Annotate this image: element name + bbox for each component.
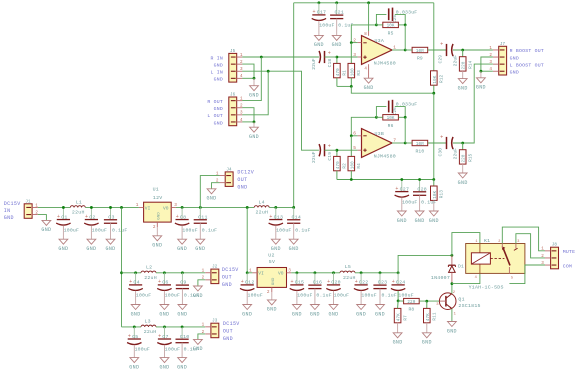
pin 1 U3A output <box>392 49 404 51</box>
svg-text:J3: J3 <box>212 320 218 324</box>
connector J2 <box>211 269 219 284</box>
svg-text:COM: COM <box>563 263 572 269</box>
svg-text:100uF: 100uF <box>276 227 291 233</box>
regulator U1 12V <box>144 202 172 222</box>
svg-text:R5: R5 <box>388 31 394 37</box>
capacitor C2 <box>90 207 92 218</box>
capacitor C20 <box>333 273 335 284</box>
svg-text:R1: R1 <box>343 70 348 76</box>
ground C10 <box>181 343 183 358</box>
ground C2 <box>90 225 92 239</box>
capacitor C15 <box>296 273 298 284</box>
wire C26 branch left <box>376 107 386 118</box>
svg-text:J4: J4 <box>226 168 232 172</box>
capacitor C26 0.033uF <box>388 101 390 113</box>
svg-text:GND: GND <box>314 42 324 48</box>
svg-text:GND: GND <box>356 311 366 317</box>
svg-text:GND: GND <box>214 120 223 126</box>
svg-text:3: 3 <box>517 240 519 244</box>
capacitor C23 <box>379 273 381 285</box>
relay contact pins <box>501 244 503 249</box>
ground C12 <box>246 291 248 305</box>
wire Q1 collector <box>451 284 453 294</box>
wire C25 branch right <box>395 14 405 25</box>
svg-text:R2: R2 <box>343 163 348 169</box>
svg-text:GND: GND <box>159 364 169 369</box>
svg-text:2: 2 <box>498 240 500 244</box>
connector J7 <box>499 46 507 75</box>
resistor R1 <box>336 57 338 63</box>
svg-text:0.1uF: 0.1uF <box>421 199 436 205</box>
resistor R2 <box>336 150 338 156</box>
capacitor C10 <box>181 327 183 339</box>
svg-text:C30: C30 <box>438 148 444 157</box>
wire J5 pin1 to C18 <box>242 56 319 58</box>
ground Q1 <box>448 322 457 327</box>
regulator U2 5V <box>247 272 252 274</box>
wire J5 pin4 gnd <box>242 77 254 79</box>
node rail-pin8 <box>367 1 370 4</box>
svg-text:GND: GND <box>393 340 403 346</box>
wire Q1 emitter <box>451 309 453 322</box>
wire out to R9 <box>405 49 412 51</box>
svg-text:0.1uF: 0.1uF <box>316 293 331 299</box>
node R11 top <box>425 300 428 303</box>
svg-text:100uF: 100uF <box>361 293 376 299</box>
node fb2 left <box>375 116 378 119</box>
svg-text:GND: GND <box>249 93 259 99</box>
svg-text:22uH: 22uH <box>144 275 157 281</box>
svg-text:100uF: 100uF <box>402 199 417 205</box>
capacitor C6 <box>163 273 165 284</box>
svg-text:5: 5 <box>353 145 356 151</box>
svg-text:220: 220 <box>462 61 467 69</box>
svg-text:1: 1 <box>202 269 205 274</box>
wire out to R10 <box>405 142 412 144</box>
wire bias rail B <box>337 179 434 181</box>
ground C14 <box>293 223 295 239</box>
svg-text:1: 1 <box>541 247 544 252</box>
svg-text:100uF: 100uF <box>182 227 197 233</box>
wire 12V down to U2 <box>246 207 248 272</box>
svg-text:GND: GND <box>510 69 519 75</box>
pin 2 U1 <box>156 222 158 227</box>
node row2 left <box>120 271 123 274</box>
svg-text:1: 1 <box>202 323 205 328</box>
svg-text:GND: GND <box>458 85 468 91</box>
svg-text:+: + <box>440 134 443 140</box>
svg-text:J6: J6 <box>230 94 236 98</box>
svg-text:NJM4580: NJM4580 <box>374 153 396 159</box>
svg-text:12V: 12V <box>153 195 163 201</box>
svg-text:1: 1 <box>393 44 396 50</box>
node C7 <box>163 326 166 329</box>
wire R6 left <box>376 116 382 118</box>
pin 6 U3B <box>351 135 357 137</box>
wire 5V rail <box>291 272 340 274</box>
svg-text:L5: L5 <box>345 264 351 270</box>
svg-text:L BOOST OUT: L BOOST OUT <box>510 62 544 68</box>
wire J3 pin2 gnd <box>198 334 205 339</box>
node R14 top <box>461 49 464 52</box>
svg-text:1N4007: 1N4007 <box>431 275 450 281</box>
svg-text:GND: GND <box>158 212 162 220</box>
ground C23 <box>379 289 381 305</box>
node C13 <box>274 206 277 209</box>
svg-text:OUT: OUT <box>222 275 232 281</box>
ground J6 <box>253 122 255 127</box>
wire J5 pin3 L-in <box>242 71 319 150</box>
node U3B out <box>404 142 407 145</box>
node 12V branch U2 <box>246 206 249 209</box>
wire C24 bottom <box>397 291 399 301</box>
svg-text:GND: GND <box>177 246 187 252</box>
connector J8 <box>551 247 559 269</box>
svg-text:100uF: 100uF <box>398 293 413 299</box>
node bias mid <box>432 92 435 95</box>
node C14 V+ takeoff <box>292 206 295 209</box>
svg-text:22uF: 22uF <box>311 58 317 70</box>
svg-text:22uF: 22uF <box>311 151 317 163</box>
ground R15 <box>462 164 464 173</box>
wire J2 pin2 gnd <box>198 280 205 286</box>
node rail-C17 <box>318 1 321 4</box>
wire J5 pin2 gnd <box>242 64 254 78</box>
capacitor C22 <box>360 273 362 284</box>
pin 1 U2 <box>252 272 257 274</box>
ground C4 <box>135 291 137 305</box>
node C15 <box>296 271 299 274</box>
ground C1 <box>62 225 64 239</box>
capacitor C17 <box>318 3 320 14</box>
capacitor C27 <box>401 180 403 191</box>
svg-text:220: 220 <box>407 300 415 305</box>
svg-text:GND: GND <box>267 307 277 313</box>
node J6 gnd <box>253 121 256 124</box>
svg-text:GND: GND <box>177 364 187 369</box>
ground C17 <box>318 21 320 36</box>
svg-text:+: + <box>328 50 331 56</box>
node relay coil top <box>451 254 454 257</box>
wire relay NO to J8 pin2 <box>516 234 545 258</box>
pin 7 U3B output <box>392 142 404 144</box>
svg-text:J7: J7 <box>500 43 506 47</box>
wire J6 pin2 gnd <box>242 108 254 122</box>
wire J4 pin2 gnd <box>212 183 220 189</box>
svg-text:VO: VO <box>278 271 284 277</box>
ground J1 <box>42 220 51 225</box>
svg-text:470: 470 <box>336 161 341 169</box>
wire R12 bottom <box>433 85 435 93</box>
svg-text:C29: C29 <box>438 55 444 64</box>
ground C11 <box>199 223 201 239</box>
svg-text:0.1uF: 0.1uF <box>382 293 397 299</box>
wire 15V down branch <box>121 207 123 326</box>
svg-text:22uF: 22uF <box>453 55 459 67</box>
svg-text:R OUT: R OUT <box>207 99 223 105</box>
svg-text:R6: R6 <box>388 123 394 129</box>
wire relay COM to J8 pin3 <box>509 265 545 284</box>
svg-text:R4: R4 <box>357 163 362 169</box>
node C5 <box>133 326 136 329</box>
svg-text:100: 100 <box>350 68 355 76</box>
connector J1 <box>24 204 32 219</box>
resistor R15 <box>462 143 464 150</box>
connector J5 <box>229 53 237 82</box>
resistor R5 <box>383 22 399 27</box>
resistor R13 <box>433 180 435 187</box>
wire J4 pin1 to 12V row <box>200 176 219 208</box>
wire row3 to J3 <box>156 326 205 328</box>
svg-text:R13: R13 <box>440 190 445 198</box>
svg-text:GND: GND <box>193 293 203 299</box>
svg-text:R11: R11 <box>433 312 438 320</box>
svg-text:470: 470 <box>336 68 341 76</box>
wire U3A feedback <box>351 25 375 43</box>
relay switch lever <box>503 248 510 266</box>
node pin2 <box>350 41 353 44</box>
ground U3A pin4 <box>364 78 373 83</box>
node C1 <box>62 206 65 209</box>
svg-text:+: + <box>440 41 443 47</box>
svg-text:100uF: 100uF <box>334 293 349 299</box>
wire bias mid drop <box>433 93 435 179</box>
node rail-C21 <box>335 1 338 4</box>
svg-text:IN: IN <box>4 208 11 214</box>
svg-text:0.1uF: 0.1uF <box>202 227 217 233</box>
svg-text:2: 2 <box>267 290 270 295</box>
node J5 pin1 <box>260 56 263 59</box>
node J7 gnd <box>480 70 483 73</box>
ground J7 <box>480 71 482 78</box>
node pin6 <box>350 134 353 137</box>
svg-text:L3: L3 <box>145 319 151 325</box>
relay coil feed line <box>479 244 481 274</box>
svg-text:GND: GND <box>242 311 252 317</box>
node J5 pin3 <box>267 70 270 73</box>
svg-text:3: 3 <box>541 261 544 266</box>
relay actuator dashed link <box>490 257 504 259</box>
svg-text:GND: GND <box>214 77 223 83</box>
svg-text:GND: GND <box>271 246 281 252</box>
inductor L3 <box>141 325 156 327</box>
svg-text:GND: GND <box>332 42 342 48</box>
wire 5V to relay <box>398 255 452 272</box>
svg-text:VI: VI <box>258 271 264 277</box>
node C24 5V takeoff <box>397 271 400 274</box>
svg-text:1: 1 <box>489 46 492 51</box>
svg-text:NJM4580: NJM4580 <box>374 60 396 66</box>
ground R7 <box>397 323 399 333</box>
ground C5 <box>133 345 135 358</box>
wire relay NC to J8 pin1 <box>502 227 545 251</box>
svg-text:GND: GND <box>159 311 169 317</box>
capacitor C24 <box>397 273 399 284</box>
svg-text:J8: J8 <box>552 244 558 248</box>
pin 3 U1 <box>171 206 176 208</box>
svg-text:22uH: 22uH <box>144 329 157 335</box>
node U3A out <box>404 49 407 52</box>
svg-text:0.1uF: 0.1uF <box>112 227 127 233</box>
node R2 top <box>336 149 339 152</box>
wire C19 out <box>325 149 337 151</box>
svg-text:OUT: OUT <box>237 177 247 183</box>
node C10 <box>181 326 184 329</box>
pin 4 U3A <box>368 64 370 78</box>
wire R5 left <box>376 24 382 26</box>
svg-text:L4: L4 <box>259 199 265 205</box>
node row1 branch down <box>120 206 123 209</box>
svg-text:GND: GND <box>193 346 203 352</box>
node coil bottom <box>451 282 454 285</box>
wire C26 branch right <box>395 107 405 118</box>
node C22 <box>360 271 363 274</box>
wire V+ right drop <box>433 3 435 71</box>
svg-text:DC15V: DC15V <box>4 201 21 207</box>
svg-text:GND: GND <box>237 184 247 190</box>
svg-text:220: 220 <box>462 154 467 162</box>
svg-text:GND: GND <box>249 134 259 140</box>
svg-text:GND: GND <box>429 218 439 224</box>
wire row1 mid <box>85 206 139 208</box>
pin 3 U2 <box>287 272 292 274</box>
wire fb2 to output <box>404 117 406 143</box>
svg-text:6: 6 <box>353 131 356 137</box>
svg-text:100uF: 100uF <box>136 293 151 299</box>
svg-text:R10: R10 <box>415 149 424 155</box>
inductor L1 <box>70 206 85 208</box>
inductor L4 <box>254 206 269 208</box>
wire J6 pin4 gnd <box>242 121 254 123</box>
svg-text:1: 1 <box>475 240 477 244</box>
svg-text:100uF: 100uF <box>135 347 150 353</box>
node fb right <box>404 24 407 27</box>
ground C9 <box>181 289 183 305</box>
wire coil drive top <box>452 233 480 256</box>
svg-text:DC15V: DC15V <box>222 267 239 273</box>
svg-text:GND: GND <box>289 246 299 252</box>
wire R4 bottom <box>350 171 352 180</box>
wire J7 pin2 gnd <box>481 57 493 71</box>
svg-text:K1: K1 <box>484 238 490 244</box>
svg-text:DC15V: DC15V <box>223 321 240 327</box>
capacitor C7 <box>164 327 166 338</box>
svg-text:22uH: 22uH <box>72 210 85 216</box>
svg-text:0.1uF: 0.1uF <box>295 227 310 233</box>
node C9 <box>181 271 184 274</box>
svg-text:U3A: U3A <box>375 38 385 44</box>
svg-text:GND: GND <box>310 311 320 317</box>
wire C29 to J7 pin1 <box>453 49 493 51</box>
ground C27 <box>401 198 403 212</box>
node U2 in <box>246 271 249 274</box>
node bias A <box>350 85 353 88</box>
svg-text:D1: D1 <box>458 263 464 269</box>
svg-text:GND: GND <box>476 85 486 91</box>
ground U1 <box>156 227 158 236</box>
resistor R7 <box>394 308 401 322</box>
wire fb to output <box>404 25 406 50</box>
ground C6 <box>163 291 165 305</box>
wire L4 to C13 <box>269 206 294 208</box>
wire J6 pin1 link <box>242 57 261 101</box>
ground C3 <box>110 223 112 239</box>
pin 3 U3A <box>337 56 358 58</box>
wire R8 to base <box>419 300 440 302</box>
svg-text:GND: GND <box>447 328 457 334</box>
wire R3 bottom <box>350 78 352 87</box>
svg-text:100uF: 100uF <box>165 293 180 299</box>
svg-text:GND: GND <box>397 218 407 224</box>
capacitor C11 <box>199 207 201 219</box>
ground J2 <box>194 286 203 291</box>
svg-text:GND: GND <box>129 364 139 369</box>
svg-text:C25: C25 <box>394 15 398 23</box>
wire row2 left <box>122 272 142 274</box>
svg-text:Y1AH-1C-5DS: Y1AH-1C-5DS <box>469 285 504 291</box>
node C4 <box>134 271 137 274</box>
wire R10 to C30 <box>428 142 447 144</box>
wire J1 pin2 gnd <box>38 215 47 221</box>
ground C7 <box>164 345 166 358</box>
relay K1 <box>466 244 525 274</box>
svg-text:R3: R3 <box>357 70 362 76</box>
node R1 top <box>336 56 339 59</box>
resistor R12 <box>431 71 438 85</box>
capacitor C12 <box>246 273 248 284</box>
ground C28 <box>419 195 421 211</box>
svg-text:GND: GND <box>223 336 233 342</box>
wire R6 right <box>398 116 405 118</box>
wire row1 12V <box>176 206 254 208</box>
svg-text:10K: 10K <box>433 75 438 83</box>
resistor R3 <box>350 43 352 64</box>
svg-text:10K: 10K <box>387 116 395 121</box>
svg-text:100uF: 100uF <box>165 347 180 353</box>
capacitor C19 <box>319 144 320 156</box>
svg-text:GND: GND <box>206 196 216 202</box>
capacitor C28 <box>419 180 421 192</box>
ground J4 <box>207 189 216 194</box>
wire C30 to J7 pin3 <box>453 64 493 143</box>
capacitor C13 <box>275 207 277 218</box>
svg-text:GND: GND <box>328 311 338 317</box>
svg-text:10R: 10R <box>416 49 424 54</box>
svg-text:L2: L2 <box>146 265 152 271</box>
svg-text:22uF: 22uF <box>453 148 459 160</box>
svg-text:R9: R9 <box>417 56 423 62</box>
svg-text:MUTE: MUTE <box>563 249 576 255</box>
svg-text:GND: GND <box>86 246 96 252</box>
svg-text:R7: R7 <box>403 315 408 321</box>
wire J7 pin4 gnd <box>481 70 493 72</box>
resistor R6 <box>383 115 399 120</box>
svg-text:L OUT: L OUT <box>207 113 223 119</box>
wire V+ top rail <box>294 2 434 4</box>
node C28 <box>418 178 421 181</box>
svg-text:L1: L1 <box>76 199 82 205</box>
capacitor C16 <box>314 273 316 285</box>
svg-text:100uF: 100uF <box>64 227 79 233</box>
svg-text:GND: GND <box>177 311 187 317</box>
svg-text:1: 1 <box>249 269 252 274</box>
wire 5V rail right <box>355 272 398 274</box>
connector J4 <box>225 172 233 187</box>
svg-text:GND: GND <box>4 215 14 221</box>
svg-text:GND: GND <box>292 311 302 317</box>
svg-text:Q1: Q1 <box>458 296 464 302</box>
svg-text:U2: U2 <box>268 252 274 258</box>
